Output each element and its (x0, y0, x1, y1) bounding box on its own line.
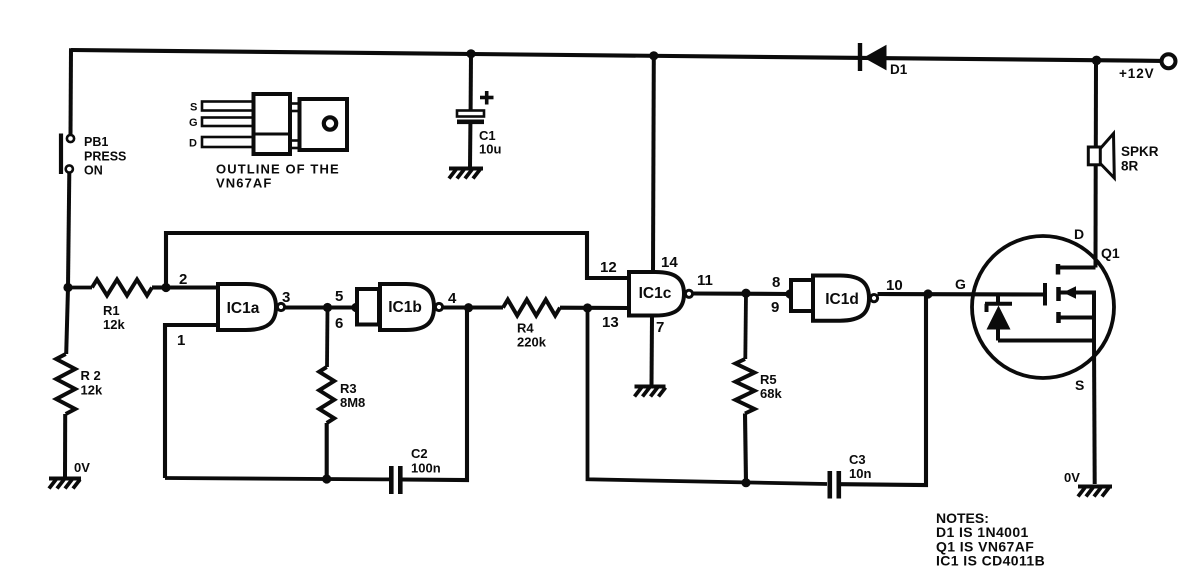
junction IC1c pin 13 node (583, 303, 592, 312)
svg-text:D: D (189, 138, 197, 150)
nand gate IC1d with input tie box (791, 276, 878, 321)
wire feedback (pin2 node up, across, down to pin12) (166, 233, 629, 288)
zener diode triangle inside Q1 (987, 306, 1011, 330)
wire left vertical (rail to PB1) (69, 48, 74, 135)
label R4 220k (517, 321, 547, 350)
svg-text:G: G (955, 276, 966, 292)
wire source vertical to ground (1092, 341, 1097, 485)
junction pin14 on rail (649, 51, 658, 60)
junction gate node (923, 289, 932, 298)
wire pin 1 into IC1a (from bottom rail) (165, 325, 218, 478)
svg-text:IC1b: IC1b (388, 299, 422, 316)
svg-text:10u: 10u (479, 142, 501, 157)
svg-text:100n: 100n (411, 461, 441, 476)
wire IC1b output to R4 (443, 305, 504, 309)
label R1 12k (103, 303, 125, 332)
svg-text:R4: R4 (517, 321, 534, 336)
arrowhead on Q1 body lead (1063, 286, 1076, 299)
svg-text:IC1d: IC1d (825, 291, 859, 308)
label C1 10u (479, 128, 501, 157)
svg-text:220k: 220k (517, 335, 547, 350)
svg-text:5: 5 (335, 288, 343, 305)
wire PB1 to node A (68, 173, 69, 288)
svg-text:ON: ON (84, 164, 103, 178)
label SPKR 8R (1121, 144, 1159, 174)
nand gate IC1c (629, 272, 693, 316)
svg-text:12: 12 (600, 259, 617, 276)
svg-text:8M8: 8M8 (340, 395, 365, 410)
wire pin13 node down and bottom rail B (588, 294, 927, 485)
svg-text:12k: 12k (81, 383, 103, 398)
+12V terminal (1162, 54, 1176, 68)
svg-text:S: S (1075, 377, 1084, 393)
svg-text:C2: C2 (411, 446, 428, 461)
svg-text:8: 8 (772, 274, 780, 291)
svg-text:4: 4 (448, 290, 457, 307)
svg-text:IC1c: IC1c (639, 285, 672, 302)
wire IC1c output to IC1d input (693, 291, 792, 296)
junction R5 bottom (741, 478, 750, 487)
svg-text:R5: R5 (760, 372, 777, 387)
resistor R2 (56, 288, 75, 479)
pushbutton PB1 (61, 134, 74, 175)
svg-text:SPKR: SPKR (1121, 144, 1159, 159)
wire top +12V rail (71, 50, 1162, 61)
wire IC1c pin 7 to ground (650, 316, 655, 387)
svg-text:8R: 8R (1121, 159, 1139, 174)
notes block (936, 510, 1045, 569)
wire bottom rail A (pin1/R3/C2) (165, 308, 467, 481)
svg-text:10: 10 (886, 277, 903, 294)
junction IC1b input tie (351, 303, 360, 312)
svg-text:10n: 10n (849, 466, 871, 481)
resistor R5 (736, 293, 755, 483)
resistor R4 (503, 300, 629, 316)
wire IC1a output to IC1b input (285, 305, 358, 309)
svg-text:R 2: R 2 (81, 368, 101, 383)
capacitor C3 (830, 471, 839, 499)
svg-text:IC1a: IC1a (227, 300, 260, 317)
svg-text:VN67AF: VN67AF (216, 176, 272, 191)
resistor R1 (68, 280, 166, 296)
resistor R3 (319, 308, 334, 480)
nand gate IC1b with input tie box (357, 284, 443, 330)
label C3 10n (849, 452, 871, 481)
label OUTLINE OF THE VN67AF (216, 162, 340, 191)
ground C1 (449, 169, 483, 179)
label R3 8M8 (340, 381, 365, 410)
svg-text:C3: C3 (849, 452, 866, 467)
svg-text:2: 2 (179, 271, 187, 288)
junction R3 top (323, 303, 332, 312)
ground IC1c pin 7 (635, 387, 666, 397)
wire pin 2 into IC1a (166, 285, 218, 289)
junction IC1a pin 2 node (161, 283, 170, 292)
svg-text:OUTLINE OF THE: OUTLINE OF THE (216, 162, 340, 177)
junction IC1b output / C2 branch (464, 303, 473, 312)
svg-text:R1: R1 (103, 303, 120, 318)
transistor package outline VN67AF (202, 94, 347, 154)
svg-text:PRESS: PRESS (84, 150, 126, 164)
node A junction (R1/R2/PB1) (63, 283, 72, 292)
capacitor C2 (391, 466, 400, 494)
junction R5 top (741, 289, 750, 298)
svg-text:11: 11 (697, 272, 713, 289)
svg-text:68k: 68k (760, 386, 782, 401)
svg-text:3: 3 (282, 289, 290, 306)
label C2 100n (411, 446, 441, 476)
diode D1 (860, 43, 887, 71)
junction IC1d input tie (785, 289, 794, 298)
svg-text:+12V: +12V (1119, 66, 1155, 81)
wire IC1d output to Q1 gate (878, 292, 1046, 297)
ground Q1 source 0V (1078, 487, 1112, 497)
speaker SPKR (1088, 134, 1114, 179)
svg-text:0V: 0V (74, 460, 90, 475)
svg-text:13: 13 (602, 314, 619, 331)
capacitor C1 (457, 54, 484, 168)
junction R3 bottom (322, 474, 331, 483)
svg-text:D: D (1074, 226, 1084, 242)
ground left 0V (49, 479, 81, 489)
svg-text:S: S (190, 102, 197, 114)
transistor Q1 (VMOS) (972, 236, 1114, 378)
label R2 12k (81, 368, 103, 398)
junction speaker branch on rail (1092, 56, 1102, 66)
svg-text:9: 9 (771, 299, 779, 316)
svg-text:D1: D1 (890, 62, 908, 77)
svg-text:12k: 12k (103, 317, 125, 332)
junction C1 on rail (466, 49, 475, 58)
nand gate IC1a (218, 284, 285, 330)
label PB1 PRESS ON (84, 135, 126, 178)
svg-text:7: 7 (656, 319, 664, 336)
label R5 68k (760, 372, 782, 401)
svg-text:Q1: Q1 (1101, 245, 1120, 261)
wire IC1c pin 14 to rail (651, 56, 656, 272)
label + polarity C1 (drawn) (480, 91, 494, 105)
svg-text:IC1 IS CD4011B: IC1 IS CD4011B (936, 553, 1045, 569)
svg-text:14: 14 (661, 254, 678, 271)
svg-text:G: G (189, 117, 198, 129)
svg-text:1: 1 (177, 332, 185, 349)
svg-text:PB1: PB1 (84, 135, 108, 149)
wire drain vertical (rail through speaker to drain) (1094, 60, 1099, 267)
svg-text:6: 6 (335, 315, 343, 332)
svg-text:0V: 0V (1064, 470, 1080, 485)
svg-text:R3: R3 (340, 381, 357, 396)
